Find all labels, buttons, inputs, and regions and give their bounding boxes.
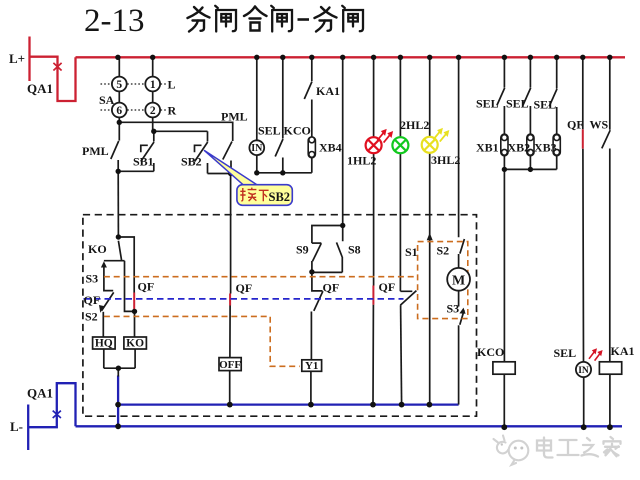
- svg-text:KA1: KA1: [316, 84, 340, 98]
- svg-text:KO: KO: [88, 242, 107, 256]
- svg-text:IN: IN: [578, 366, 589, 376]
- svg-text:S2: S2: [437, 244, 450, 258]
- svg-text:S3: S3: [86, 272, 99, 286]
- svg-text:HQ: HQ: [95, 338, 113, 350]
- svg-text:QF: QF: [84, 293, 101, 307]
- svg-text:WS: WS: [590, 118, 609, 132]
- svg-text:KCO: KCO: [284, 124, 311, 138]
- svg-text:S1: S1: [405, 245, 418, 259]
- svg-text:SEL: SEL: [258, 124, 281, 138]
- svg-text:SB2: SB2: [269, 190, 291, 204]
- svg-text:XB3: XB3: [534, 141, 557, 155]
- svg-text:QF: QF: [379, 280, 396, 294]
- svg-text:L+: L+: [9, 51, 25, 66]
- svg-text:SEL: SEL: [476, 97, 499, 111]
- svg-text:PML: PML: [221, 110, 248, 124]
- svg-text:KO: KO: [126, 338, 144, 350]
- svg-text:IN: IN: [251, 143, 263, 154]
- svg-text:OFF: OFF: [219, 359, 241, 371]
- svg-text:XB2: XB2: [508, 141, 531, 155]
- svg-text:QF: QF: [236, 281, 253, 295]
- svg-text:1: 1: [150, 79, 156, 91]
- svg-text:QF: QF: [567, 118, 584, 132]
- svg-text:QF: QF: [138, 280, 155, 294]
- svg-text:SEL: SEL: [554, 346, 577, 360]
- svg-text:L: L: [168, 78, 176, 92]
- svg-text:1HL2: 1HL2: [347, 154, 376, 168]
- svg-text:S8: S8: [348, 243, 361, 257]
- svg-text:2-13: 2-13: [84, 3, 145, 39]
- svg-text:2: 2: [150, 105, 156, 117]
- svg-text:SEL: SEL: [534, 98, 557, 112]
- svg-text:S9: S9: [296, 243, 309, 257]
- svg-text:5: 5: [116, 79, 122, 91]
- svg-text:XB1: XB1: [476, 141, 499, 155]
- svg-text:QA1: QA1: [27, 81, 53, 96]
- svg-text:SEL: SEL: [506, 97, 529, 111]
- svg-text:QA1: QA1: [27, 386, 53, 401]
- svg-text:M: M: [452, 273, 465, 288]
- svg-text:L-: L-: [10, 419, 23, 434]
- svg-text:QF: QF: [323, 281, 340, 295]
- svg-text:SA: SA: [99, 93, 115, 107]
- svg-text:S3: S3: [447, 302, 460, 316]
- svg-text:SB1: SB1: [133, 155, 154, 169]
- svg-text:KCO: KCO: [477, 345, 504, 359]
- svg-text:R: R: [168, 104, 177, 118]
- svg-text:PML: PML: [82, 144, 109, 158]
- svg-text:XB4: XB4: [319, 141, 342, 155]
- svg-text:2HL2: 2HL2: [400, 118, 429, 132]
- svg-text:3HL2: 3HL2: [431, 153, 460, 167]
- svg-text:6: 6: [116, 105, 122, 117]
- svg-text:S2: S2: [85, 310, 98, 324]
- svg-text:SB2: SB2: [181, 155, 202, 169]
- svg-text:KA1: KA1: [611, 344, 635, 358]
- svg-text:Y1: Y1: [305, 360, 318, 372]
